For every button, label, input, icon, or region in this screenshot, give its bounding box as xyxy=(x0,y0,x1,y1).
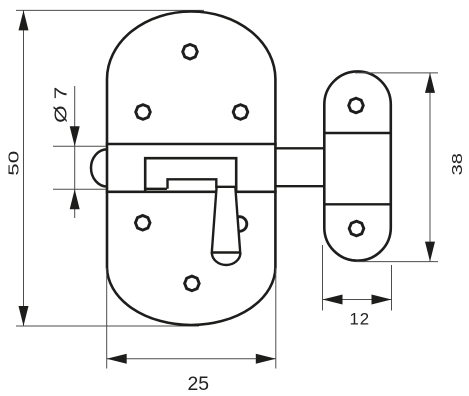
hole lower-left xyxy=(135,216,150,231)
handle bottom cap xyxy=(212,253,241,265)
keeper hole top xyxy=(349,98,364,113)
dim 38 arrow bottom xyxy=(425,242,435,262)
handle (knob) body xyxy=(212,187,240,253)
keeper plate outline xyxy=(324,71,391,260)
keeper lower inner line xyxy=(324,203,391,205)
band bottom line xyxy=(106,191,277,194)
dim 12 right extension line xyxy=(391,265,393,311)
main plate outline xyxy=(107,11,275,325)
keeper upper inner line xyxy=(324,132,391,134)
rod to keeper top line xyxy=(275,147,324,149)
dim 38 bottom extension line xyxy=(356,261,438,263)
dim Ø7 arrow upper (pointing down) xyxy=(70,126,80,146)
dim 12 arrow right xyxy=(372,295,392,305)
dim 50 dimension line xyxy=(23,10,25,326)
dim Ø7 dimension line xyxy=(74,86,76,218)
dim 50 top extension line xyxy=(16,9,204,11)
dim 50 bottom extension line xyxy=(16,325,199,327)
dim 25 arrow right xyxy=(256,354,276,364)
hole lower-right (partly hidden by handle) xyxy=(232,217,247,232)
hole top xyxy=(183,44,198,59)
svg-text:50: 50 xyxy=(6,151,22,176)
dim 38 dimension line xyxy=(429,73,431,262)
svg-text:12: 12 xyxy=(349,310,370,329)
bolt end bump (left of plate) xyxy=(91,149,107,186)
dim 12 dimension line xyxy=(323,299,392,301)
dim Ø7 arrow lower (pointing up) xyxy=(70,189,80,209)
hole upper-right xyxy=(233,105,248,120)
hole upper-left xyxy=(136,105,151,120)
dim 50 arrow top xyxy=(19,10,29,30)
keeper hole bottom xyxy=(349,221,364,236)
dim 25 arrow left xyxy=(107,354,127,364)
rod to keeper bottom line xyxy=(275,185,324,187)
dim 50 arrow bottom xyxy=(19,306,29,326)
guide bottom-left line xyxy=(145,188,167,190)
dim 25 left extension line xyxy=(106,268,108,369)
svg-text:25: 25 xyxy=(188,373,210,395)
svg-text:38: 38 xyxy=(449,153,466,175)
dim Ø7 lower extension line xyxy=(53,188,109,190)
dim 12 left extension line xyxy=(322,245,324,311)
dim 12 arrow left xyxy=(323,295,343,305)
dim 25 right extension line xyxy=(275,268,277,369)
dim Ø7 upper extension line xyxy=(53,145,109,147)
bolt slide step rectangle xyxy=(168,179,217,189)
dim 25 dimension line xyxy=(107,358,276,360)
band top line xyxy=(106,143,277,146)
svg-text:Ø 7: Ø 7 xyxy=(51,87,70,123)
dim 38 arrow top xyxy=(425,73,435,93)
hole bottom xyxy=(185,276,200,291)
dim 38 top extension line xyxy=(355,72,438,74)
guide rectangle xyxy=(145,158,236,192)
